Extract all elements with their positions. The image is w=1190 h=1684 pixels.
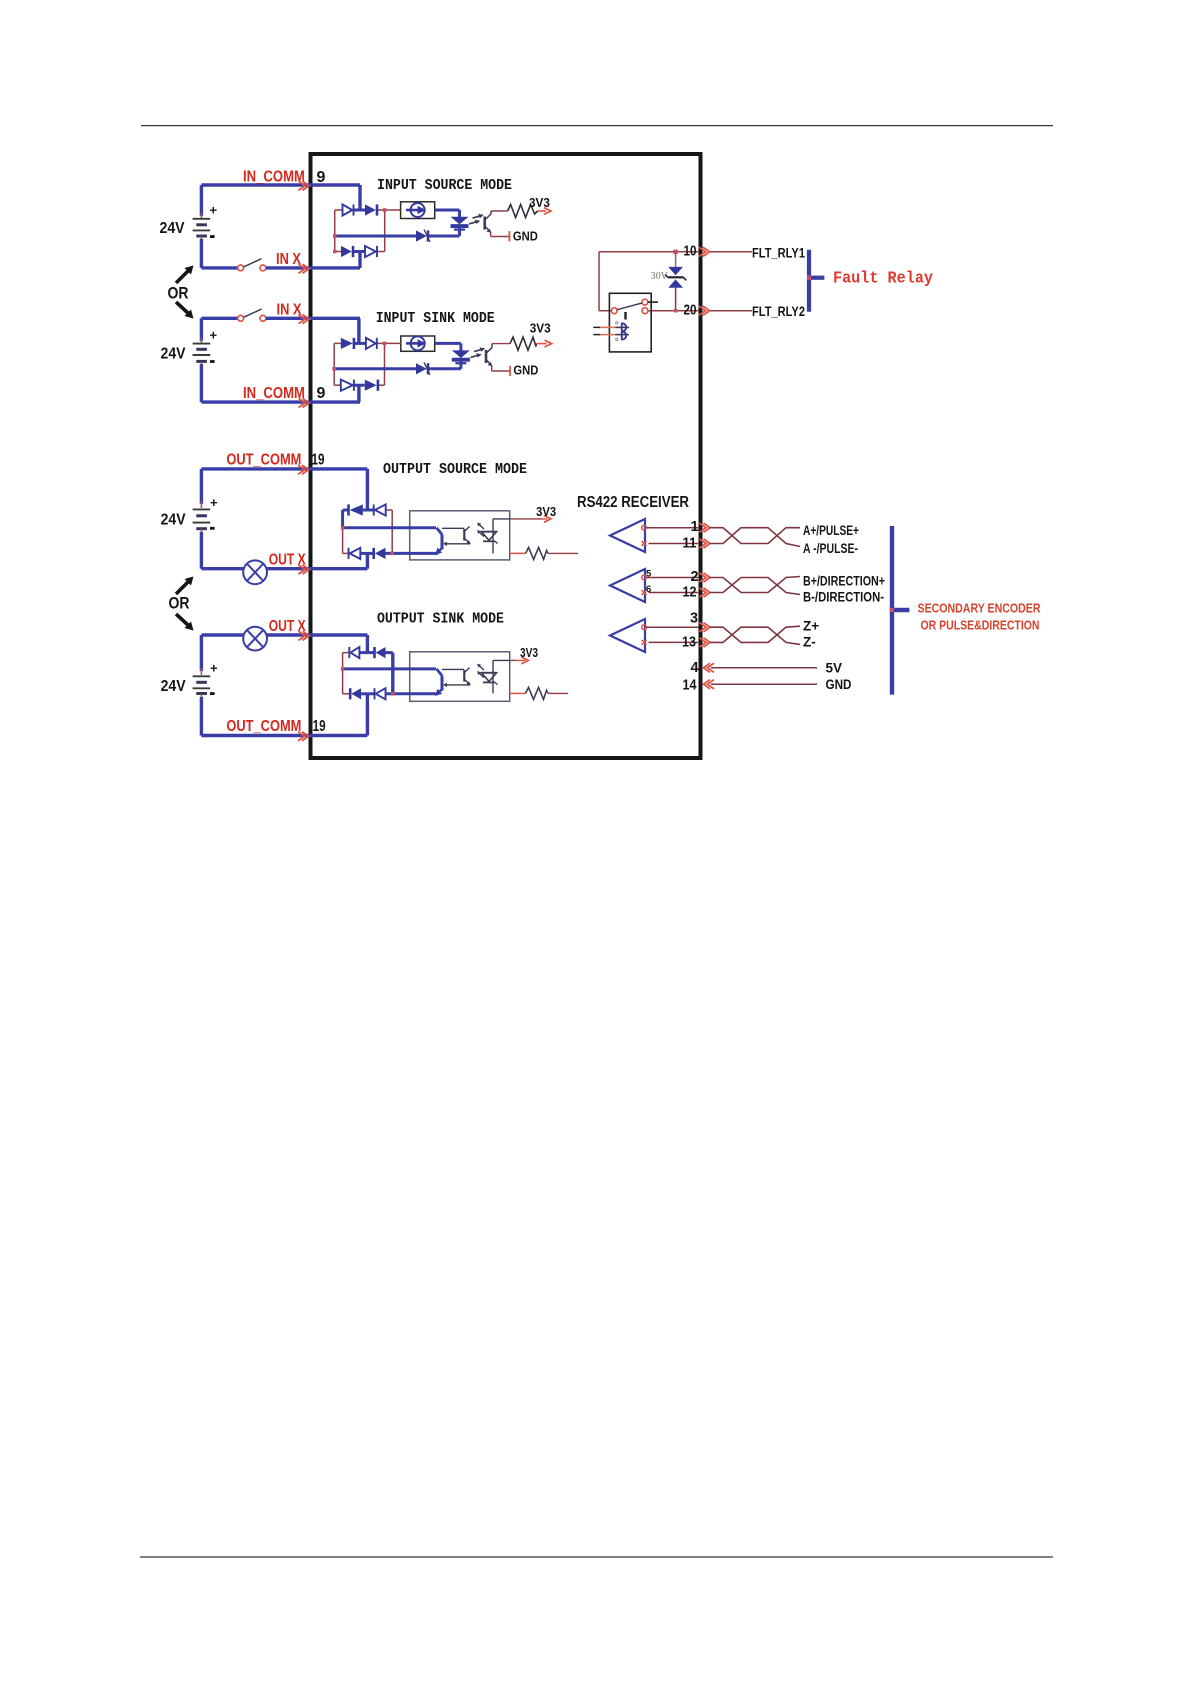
U4 collector row — [343, 667, 436, 670]
wire to lamp2 — [201, 633, 243, 636]
wire pin19 drop — [366, 469, 369, 510]
wire box to LED sink — [435, 342, 461, 345]
svg-text:13: 13 — [682, 635, 696, 651]
OUT X bottom chevron — [299, 631, 306, 640]
diode D10 filled — [365, 380, 377, 391]
page top rule — [141, 125, 1053, 127]
IN_COMM bottom chevron — [299, 398, 306, 407]
current source U2 box — [401, 336, 435, 351]
svg-text:Z+: Z+ — [803, 619, 819, 634]
diode D2 filled — [365, 204, 376, 215]
pin 3 chevron — [700, 623, 707, 632]
diode D4 open — [365, 246, 376, 257]
pin 14 chevron — [708, 680, 715, 689]
input source diode bridge — [334, 210, 336, 252]
wire OUTCOMM rise — [366, 694, 369, 736]
svg-text:GND: GND — [513, 362, 538, 377]
svg-text:20: 20 — [684, 301, 697, 318]
pin 12 chevron — [700, 588, 707, 597]
svg-text:11: 11 — [683, 536, 697, 552]
svg-text:5: 5 — [646, 569, 652, 580]
U4 emitter row — [386, 692, 439, 695]
battery B2 24V — [200, 318, 203, 341]
diode D20 open left — [376, 688, 386, 699]
svg-text:24V: 24V — [160, 220, 185, 237]
wire OUT_COMM bottom — [201, 734, 367, 737]
svg-text:IN_COMM: IN_COMM — [243, 169, 305, 186]
wire FLT_RLY1 — [710, 251, 752, 253]
svg-text:A -/PULSE-: A -/PULSE- — [803, 541, 858, 556]
wire OUTX sink drop — [366, 635, 369, 653]
middle row wire sink — [334, 367, 416, 370]
svg-text:Fault Relay: Fault Relay — [833, 270, 933, 289]
svg-text:+: + — [210, 661, 218, 676]
wire INX sink drop — [357, 318, 360, 343]
twisted pair Z — [710, 626, 801, 642]
pin 1 chevron — [700, 523, 707, 532]
battery B3 24V — [200, 469, 203, 504]
U3 photodiode — [481, 531, 497, 533]
twisted pair A — [710, 528, 801, 544]
svg-text:3V3: 3V3 — [530, 321, 551, 336]
phototransistor Q2 — [485, 350, 488, 363]
svg-text:RS422 RECEIVER: RS422 RECEIVER — [577, 494, 689, 511]
svg-text:14: 14 — [683, 677, 697, 693]
relay K1 box — [609, 293, 651, 352]
buffer A input wires — [646, 527, 699, 529]
svg-text:GND: GND — [513, 229, 538, 244]
diode D19 filled left — [351, 688, 361, 699]
pin 2 chevron — [700, 573, 707, 582]
svg-text:FLT_RLY2: FLT_RLY2 — [752, 304, 805, 319]
svg-text:GND: GND — [826, 677, 852, 692]
OUT X chevron — [299, 565, 306, 574]
OUT_COMM bottom chevron — [298, 732, 305, 741]
resistor R1 — [491, 210, 508, 212]
svg-text:24V: 24V — [161, 512, 186, 529]
svg-text:OUT_COMM: OUT_COMM — [226, 452, 301, 469]
3V3 arrow top — [538, 210, 546, 212]
U3 collector row — [343, 526, 436, 529]
svg-text:OR: OR — [168, 284, 189, 303]
phototransistor Q1 — [483, 217, 486, 230]
svg-text:6: 6 — [646, 584, 651, 595]
wire box to LED — [435, 209, 460, 212]
RS422 buffer B — [610, 569, 645, 602]
light arrows — [469, 221, 479, 224]
svg-text:3: 3 — [690, 611, 698, 627]
svg-text:OUTPUT SOURCE MODE: OUTPUT SOURCE MODE — [383, 461, 527, 478]
svg-text:9: 9 — [317, 169, 326, 186]
svg-text:10: 10 — [684, 242, 697, 259]
relay coil — [593, 326, 600, 328]
svg-text:Z-: Z- — [803, 635, 816, 650]
svg-text:+: + — [210, 495, 218, 510]
GND wire — [711, 683, 817, 685]
wire OUT X top — [267, 567, 368, 570]
wire IN X bottom — [266, 317, 360, 320]
switch S2 — [201, 317, 237, 320]
svg-text:OR PULSE&DIRECTION: OR PULSE&DIRECTION — [921, 619, 1040, 633]
svg-text:24V: 24V — [161, 346, 186, 363]
fault relay bracket — [807, 250, 811, 312]
wire IN X top — [266, 266, 360, 269]
pin 11 chevron — [700, 539, 707, 548]
opto LED D12 — [452, 350, 470, 358]
GND tick input source — [491, 236, 510, 238]
secondary encoder bracket — [890, 526, 894, 695]
svg-text:9: 9 — [317, 385, 326, 402]
opto LED D6 — [451, 217, 469, 225]
relay contacts — [611, 308, 617, 314]
diode D11 filled middle — [416, 363, 427, 374]
switch S1 — [238, 265, 244, 271]
twisted pair B — [710, 577, 801, 593]
svg-text:IN X: IN X — [277, 302, 302, 319]
U3 light arrows — [478, 524, 484, 530]
diode D13 filled left — [350, 504, 363, 515]
svg-text:A+/PULSE+: A+/PULSE+ — [803, 523, 859, 538]
svg-text:OR: OR — [169, 594, 190, 613]
diode D1 open — [343, 204, 353, 215]
wire INX rise — [358, 252, 361, 268]
light arrows sink — [471, 355, 481, 358]
U4 darlington detail — [442, 668, 464, 670]
svg-text:30V: 30V — [651, 271, 668, 282]
svg-text:INPUT SOURCE MODE: INPUT SOURCE MODE — [377, 177, 512, 194]
pin 4 chevron — [708, 663, 715, 672]
diode D5 filled middle — [416, 230, 427, 241]
buffer Z input wires — [646, 626, 699, 628]
svg-text:B+/DIRECTION+: B+/DIRECTION+ — [803, 574, 885, 589]
svg-text:IN X: IN X — [276, 251, 301, 268]
svg-text:INPUT SINK MODE: INPUT SINK MODE — [376, 310, 495, 327]
optocoupler U4 box — [410, 652, 510, 702]
diode D9 open — [341, 380, 353, 391]
diode D15 open left — [350, 548, 361, 559]
GND tick input sink — [492, 370, 510, 372]
svg-text:19: 19 — [312, 452, 325, 469]
wire OUT_COMM top — [201, 467, 367, 470]
svg-text:OUT_COMM: OUT_COMM — [226, 718, 301, 735]
resistor R3 — [510, 552, 526, 554]
buffer B input wires — [646, 577, 699, 579]
U3 darlington detail — [442, 527, 464, 529]
input sink diode bridge — [333, 343, 335, 385]
diode D16 filled left — [375, 548, 386, 559]
svg-text:B-/DIRECTION-: B-/DIRECTION- — [803, 590, 884, 605]
pin 10 chevron — [699, 247, 706, 256]
wire IN_COMM bottom — [201, 400, 360, 403]
TVS 30V zener — [675, 252, 677, 267]
lamp X1 — [243, 560, 267, 584]
U4 photodiode — [481, 672, 497, 674]
U3 emitter row — [386, 552, 439, 555]
resistor R2 — [492, 343, 510, 345]
3V3 arrow sink — [536, 343, 546, 345]
IN X chevron — [299, 264, 306, 273]
U3 inner rail — [492, 519, 494, 554]
diode D14 open left — [375, 504, 386, 515]
svg-text:24V: 24V — [161, 678, 186, 695]
U3 output transistor — [437, 528, 443, 535]
svg-text:5V: 5V — [826, 661, 843, 676]
RS422 buffer Z — [610, 619, 645, 652]
wire INCOMM rise — [357, 385, 360, 402]
U4 inner rail — [492, 660, 494, 693]
resistor R4 — [510, 692, 526, 694]
svg-text:2: 2 — [691, 569, 699, 585]
svg-text:3V3: 3V3 — [520, 645, 538, 660]
diode D3 filled — [341, 246, 352, 257]
3V3 line output sink — [510, 659, 518, 661]
pin 20 chevron — [699, 306, 706, 315]
OUT_COMM chevron — [298, 465, 305, 474]
svg-text:SECONDARY ENCODER: SECONDARY ENCODER — [918, 602, 1041, 616]
svg-text:1: 1 — [691, 519, 699, 535]
wire pin9 drop — [358, 185, 361, 210]
svg-text:OUTPUT SINK MODE: OUTPUT SINK MODE — [377, 611, 504, 628]
diode D17 open left — [351, 647, 360, 658]
svg-text:+: + — [210, 328, 218, 343]
optocoupler U3 box — [410, 511, 510, 560]
battery B1 24V — [200, 185, 203, 216]
IN X bottom chevron — [299, 315, 306, 324]
svg-text:3V3: 3V3 — [529, 195, 550, 210]
device boundary box — [311, 154, 701, 758]
svg-text:+: + — [210, 203, 218, 218]
svg-text:4: 4 — [691, 660, 699, 676]
wire to lamp1 — [201, 567, 243, 570]
svg-text:IN_COMM: IN_COMM — [243, 385, 305, 402]
wire IN_COMM top — [201, 183, 360, 186]
svg-text:12: 12 — [683, 585, 697, 601]
current source U1 box — [401, 202, 435, 219]
middle row wire — [335, 235, 416, 238]
diode D7 filled — [341, 338, 353, 349]
wire FLT_RLY2 — [710, 310, 752, 312]
output sink diode bridge — [342, 653, 344, 694]
relay feed wires — [599, 251, 699, 253]
page bottom rule — [140, 1556, 1053, 1558]
3V3 line output source — [510, 518, 541, 520]
wire OUT X bottom — [267, 633, 368, 636]
output source diode bridge — [341, 510, 344, 528]
diode D18 filled left — [376, 647, 386, 658]
svg-text:19: 19 — [313, 718, 326, 735]
wire battery1 to switch — [201, 266, 237, 269]
svg-text:3V3: 3V3 — [536, 504, 556, 519]
battery B4 24V — [200, 635, 203, 671]
pin 13 chevron — [700, 638, 707, 647]
diode D8 open — [366, 338, 376, 349]
5V wire — [711, 667, 817, 669]
RS422 buffer A — [610, 519, 645, 552]
U4 light arrows — [478, 665, 484, 671]
svg-text:FLT_RLY1: FLT_RLY1 — [752, 245, 805, 260]
pin 9 chevron — [299, 181, 306, 190]
wire OUTX rise — [366, 553, 369, 568]
junction nodes — [333, 234, 337, 238]
U4 output transistor — [437, 669, 443, 676]
lamp X2 — [243, 627, 267, 651]
